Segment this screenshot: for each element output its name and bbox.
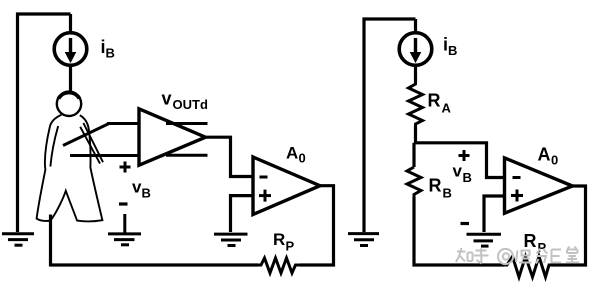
wire: current source to RA [414, 66, 417, 83]
svg-text:B: B [443, 186, 452, 201]
wire: current source top stub (right) [414, 19, 417, 33]
svg-text:B: B [463, 170, 472, 185]
person right arm [83, 123, 103, 162]
wire: RA to node [414, 126, 417, 144]
svg-text:R: R [273, 230, 285, 249]
U3 minus symbol [513, 176, 521, 179]
wire: amp U1 top input [107, 122, 140, 125]
wire: chest electrode diagonal [63, 124, 109, 146]
ground (far left) [2, 234, 34, 245]
svg-text:OUTd: OUTd [173, 97, 208, 112]
wire: U3 plus input to ground [484, 196, 505, 232]
svg-text:v: v [162, 89, 172, 109]
svg-text:v: v [453, 162, 463, 181]
person head top thick arc [59, 93, 80, 99]
ground (vB reference) [108, 214, 141, 245]
amp U1 differential output bar bottom [166, 154, 208, 157]
U3 plus symbol [511, 190, 523, 202]
混 [516, 251, 532, 263]
分 [536, 249, 548, 264]
svg-text:B: B [142, 186, 151, 201]
wire: bottom rail left of RP [51, 263, 259, 266]
svg-text:R: R [428, 91, 441, 111]
svg-text:R: R [429, 176, 442, 196]
@ [498, 249, 513, 264]
svg-text:A: A [538, 145, 551, 165]
U2 minus symbol [260, 176, 268, 179]
ground (right rail) [348, 234, 379, 246]
svg-text:0: 0 [299, 151, 306, 166]
wire: left top rail [18, 14, 71, 232]
person (body) [37, 115, 103, 222]
watermark 知乎 @混分巨兽 [456, 247, 579, 265]
wire: U2 plus input to ground [231, 196, 254, 232]
label + (vB right) [459, 150, 470, 161]
person left arm inner [50, 126, 58, 167]
ground (U3 plus input) [467, 234, 502, 246]
resistor RP (right) zigzag [503, 257, 552, 278]
wire: node to RB [412, 143, 415, 167]
svg-text:0: 0 [551, 153, 558, 168]
label + (vB plus) [120, 162, 131, 173]
svg-text:v: v [132, 178, 142, 197]
amp U1 differential output bar top [166, 122, 208, 125]
svg-text:B: B [106, 46, 115, 61]
current source iB (right) [399, 33, 432, 66]
svg-text:B: B [448, 43, 457, 58]
current source iB (left) [54, 33, 87, 66]
node wire to minus input [414, 143, 505, 178]
乎 [474, 249, 489, 264]
amp U1 triangle [139, 109, 206, 165]
resistor RB zigzag [407, 167, 421, 197]
U2 plus symbol [259, 190, 271, 202]
svg-text:P: P [286, 239, 295, 254]
svg-text:R: R [524, 231, 537, 251]
wire: U2 output down to bottom rail [300, 186, 334, 265]
wire: right top rail [364, 19, 416, 232]
resistor RP (left) zigzag [258, 258, 300, 273]
wire: current source to head [69, 66, 72, 94]
op-amp U3 (A0 right) [505, 158, 573, 213]
ground (U2 plus input) [214, 234, 248, 245]
巨 [552, 250, 562, 263]
wire: amp U1 bottom input [70, 154, 140, 157]
svg-text:A: A [442, 101, 452, 116]
label minus (vB right) [461, 222, 470, 225]
兽 [566, 247, 579, 263]
resistor RA zigzag [409, 82, 423, 126]
wire: person legs to bottom rail [49, 215, 52, 267]
op-amp U2 (A0 left) [253, 157, 320, 215]
wire: RB to bottom rail [414, 197, 504, 265]
wire: current source top stub [69, 14, 72, 33]
wire: U1 output to U2 minus input [206, 137, 254, 176]
wire: U3 output down to bottom rail [551, 186, 586, 265]
person head [57, 92, 81, 116]
知 [456, 248, 473, 262]
svg-text:A: A [286, 144, 298, 163]
label minus (vB) [119, 202, 128, 205]
